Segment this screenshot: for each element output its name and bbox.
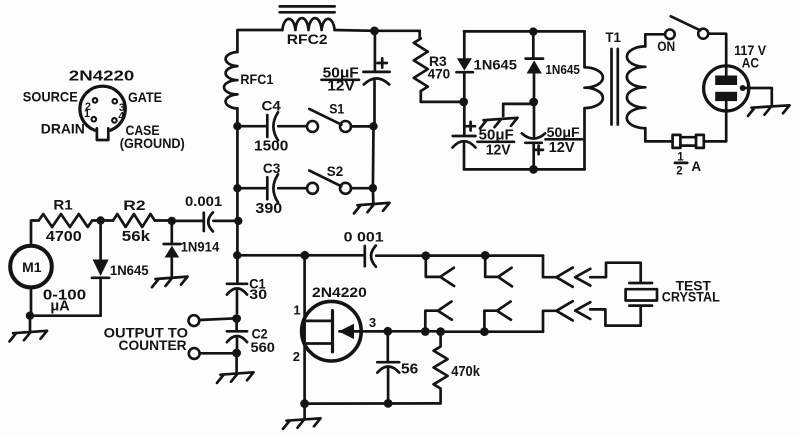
inductor RFC1 bbox=[224, 52, 237, 109]
pin 1 bbox=[92, 117, 97, 122]
diode 1N914 bbox=[164, 221, 181, 277]
svg-text:4700: 4700 bbox=[46, 229, 82, 245]
capacitor C2 bbox=[227, 319, 247, 354]
svg-text:56k: 56k bbox=[122, 229, 151, 245]
transistor Q1 2N4220 bbox=[302, 301, 388, 361]
wire diode bottom to meter bottom bbox=[30, 287, 101, 315]
svg-text:470: 470 bbox=[428, 65, 451, 81]
capacitor C4 bbox=[237, 112, 307, 140]
svg-text:SOURCE: SOURCE bbox=[23, 89, 78, 105]
ground (AC plug) bbox=[748, 105, 790, 116]
switch S1 bbox=[307, 109, 351, 132]
resistor R2 bbox=[113, 214, 155, 227]
jack bottom 3 bbox=[543, 301, 573, 332]
node main/gate line bbox=[233, 251, 241, 259]
jack top 2 bbox=[485, 255, 512, 286]
svg-text:1N914: 1N914 bbox=[181, 238, 220, 254]
wire plug bottom to fuse bbox=[704, 102, 726, 141]
ground (1N914) bbox=[152, 277, 188, 288]
meter M1 bbox=[10, 246, 52, 288]
terminal output bottom bbox=[189, 348, 200, 359]
transformer T1 secondary bbox=[585, 31, 603, 169]
svg-text:2: 2 bbox=[293, 349, 300, 364]
svg-text:T1: T1 bbox=[605, 30, 621, 45]
svg-text:C4: C4 bbox=[262, 97, 282, 113]
diode 1N645 (meter clamp) bbox=[92, 221, 109, 316]
node main/0.001 bbox=[234, 217, 242, 225]
pin 4 bbox=[112, 118, 117, 123]
plus sign (left 50uF) bbox=[466, 122, 475, 131]
svg-text:R2: R2 bbox=[123, 197, 146, 213]
svg-text:GATE: GATE bbox=[128, 89, 162, 105]
terminal output top bbox=[189, 315, 200, 326]
svg-text:2N4220: 2N4220 bbox=[312, 284, 367, 300]
emitter bottom rail bbox=[305, 402, 441, 405]
ground (C2) bbox=[217, 353, 254, 383]
svg-text:CRYSTAL: CRYSTAL bbox=[662, 290, 720, 305]
capacitor 0 001 (drain coupling) bbox=[305, 246, 426, 267]
crystal Y1 bbox=[626, 283, 657, 306]
wire switch to plug top bbox=[708, 34, 726, 75]
ground (transistor) bbox=[283, 404, 321, 429]
wire plug to ground bbox=[743, 88, 772, 105]
svg-text:AC: AC bbox=[742, 55, 759, 70]
svg-text:1: 1 bbox=[84, 108, 90, 120]
wire R1 to R2 bbox=[92, 219, 113, 222]
diode 1N645 D1 bbox=[457, 31, 473, 102]
svg-text:C3: C3 bbox=[263, 160, 281, 176]
node C4 tap bbox=[233, 122, 241, 130]
wire output top to C1/C2 node bbox=[199, 318, 236, 320]
plus sign (middle 50uF) bbox=[534, 146, 543, 155]
svg-text:DRAIN: DRAIN bbox=[41, 121, 85, 137]
node D1 bottom / R3 bbox=[459, 98, 468, 107]
svg-text:RFC1: RFC1 bbox=[240, 71, 273, 87]
node bottom rail bbox=[529, 165, 538, 174]
svg-text:A: A bbox=[691, 159, 701, 174]
ground (supply centre) bbox=[480, 118, 518, 129]
svg-text:0.001: 0.001 bbox=[185, 193, 222, 209]
resistor R1 bbox=[39, 214, 92, 227]
node meter bottom bbox=[26, 312, 34, 320]
node C2 bottom bbox=[232, 349, 241, 358]
pinout tab bbox=[96, 127, 110, 140]
wire RFC1 bottom down main vertical bbox=[236, 109, 239, 284]
node C1/C2 bbox=[232, 314, 241, 323]
svg-text:COUNTER: COUNTER bbox=[119, 337, 187, 353]
svg-text:56: 56 bbox=[401, 361, 418, 378]
wire plug top to crystal bbox=[590, 263, 640, 283]
svg-text:(GROUND): (GROUND) bbox=[120, 135, 185, 151]
svg-text:μA: μA bbox=[50, 299, 70, 315]
wire R2 to 1N914 node bbox=[155, 219, 172, 222]
supply bottom rail bbox=[464, 168, 585, 171]
svg-text:30: 30 bbox=[249, 286, 267, 302]
node pin3/56 bbox=[383, 327, 392, 336]
inductor RFC2 core bbox=[280, 6, 335, 12]
svg-text:50μF: 50μF bbox=[547, 124, 580, 140]
jack bottom 1 bbox=[425, 302, 452, 332]
wire gate line bbox=[237, 254, 304, 257]
node top jack 2 bbox=[481, 251, 490, 260]
resistor R3 bbox=[414, 31, 464, 102]
transformer T1 core bbox=[612, 49, 618, 125]
node D2 bottom bbox=[529, 98, 538, 107]
node C3 tap bbox=[233, 184, 241, 192]
wire bottom connector line bbox=[441, 330, 543, 333]
node gate vertical bbox=[300, 251, 309, 260]
wire RFC2 left to RFC1 top bbox=[237, 30, 282, 52]
capacitor C1 bbox=[227, 284, 247, 313]
jack top 3 bbox=[543, 256, 573, 287]
svg-text:M1: M1 bbox=[22, 259, 42, 275]
pin 2 bbox=[93, 98, 98, 103]
wire S column down bbox=[372, 126, 375, 203]
ground (S column) bbox=[354, 203, 390, 214]
svg-text:2N4220: 2N4220 bbox=[69, 68, 135, 84]
capacitor C3 bbox=[237, 174, 307, 202]
node RFC2/50uF/R3 bbox=[370, 27, 379, 36]
resistor 470k bbox=[434, 332, 448, 404]
svg-text:0 001: 0 001 bbox=[344, 229, 384, 245]
svg-text:390: 390 bbox=[255, 201, 282, 217]
supply top rail bbox=[464, 30, 585, 33]
svg-text:12V: 12V bbox=[549, 140, 575, 156]
fuse 1/2 A bbox=[673, 135, 704, 148]
svg-text:12V: 12V bbox=[486, 142, 511, 158]
svg-text:RFC2: RFC2 bbox=[287, 31, 328, 47]
wire S1 to right vertical bbox=[351, 125, 374, 128]
plug bottom (crystal) bbox=[575, 302, 590, 319]
wire gate vertical bbox=[303, 255, 306, 403]
capacitor 50uF left bbox=[453, 104, 476, 169]
node bottom rail ground bbox=[300, 399, 309, 408]
svg-text:1: 1 bbox=[293, 303, 300, 318]
svg-text:S2: S2 bbox=[327, 163, 344, 179]
svg-text:2: 2 bbox=[676, 165, 682, 177]
ground (meter) bbox=[10, 316, 48, 342]
svg-text:1N645: 1N645 bbox=[110, 262, 149, 278]
node R1/R2 junction bbox=[96, 216, 104, 224]
plus sign (tank cap) bbox=[378, 58, 387, 67]
node bottom jack 2 bbox=[480, 327, 489, 336]
svg-text:ON: ON bbox=[657, 39, 675, 54]
wire primary top to switch bbox=[645, 34, 665, 46]
wire output bottom to C2 bottom node bbox=[200, 352, 237, 355]
svg-text:S1: S1 bbox=[329, 100, 344, 116]
transformer T1 primary bbox=[627, 46, 645, 128]
pin 3 bbox=[113, 99, 118, 104]
node top jack 1 bbox=[421, 251, 430, 260]
jack bottom 2 bbox=[484, 302, 511, 332]
wire fuse to primary bottom bbox=[645, 128, 672, 141]
wire M1 top to R1 bbox=[31, 221, 39, 246]
svg-text:560: 560 bbox=[251, 339, 276, 355]
capacitor 56 bbox=[377, 331, 399, 403]
capacitor 0.001 (meter coupling) bbox=[172, 212, 239, 231]
wire centre tap to ground bbox=[503, 104, 534, 116]
node bottom jack 1 bbox=[421, 327, 430, 336]
node top rail / D2 bbox=[529, 27, 537, 35]
wire crystal to plug bottom bbox=[590, 306, 640, 326]
svg-text:R1: R1 bbox=[53, 196, 73, 212]
switch S2 bbox=[307, 171, 351, 194]
capacitor 50uF 12V (tank) bbox=[363, 31, 389, 126]
node 56 bottom bbox=[384, 399, 393, 408]
plug top (crystal) bbox=[575, 269, 590, 286]
node S2 right bbox=[369, 184, 377, 192]
svg-text:3: 3 bbox=[369, 315, 376, 330]
wire RFC2 right to supply node bbox=[335, 29, 420, 32]
node R2/1N914 bbox=[168, 217, 176, 225]
wire S2 to right vertical bbox=[351, 187, 373, 190]
switch ON bbox=[665, 16, 708, 39]
node S1 right bbox=[369, 122, 377, 130]
svg-text:1N645: 1N645 bbox=[545, 62, 580, 77]
capacitor 50uF middle bbox=[522, 104, 545, 169]
inductor RFC2 bbox=[282, 18, 334, 30]
svg-text:470k: 470k bbox=[451, 364, 481, 380]
pinout case circle bbox=[80, 86, 125, 131]
svg-text:1500: 1500 bbox=[254, 139, 288, 155]
diode 1N645 D2 bbox=[526, 32, 543, 102]
wire pin3 line to 470k bbox=[388, 330, 441, 333]
jack top 1 bbox=[426, 256, 454, 286]
svg-text:4: 4 bbox=[118, 110, 124, 122]
svg-text:1N645: 1N645 bbox=[474, 57, 518, 73]
node 470k top bbox=[436, 327, 445, 336]
AC plug bbox=[704, 66, 749, 111]
wire top connector line bbox=[426, 254, 543, 257]
svg-text:12V: 12V bbox=[327, 79, 355, 95]
